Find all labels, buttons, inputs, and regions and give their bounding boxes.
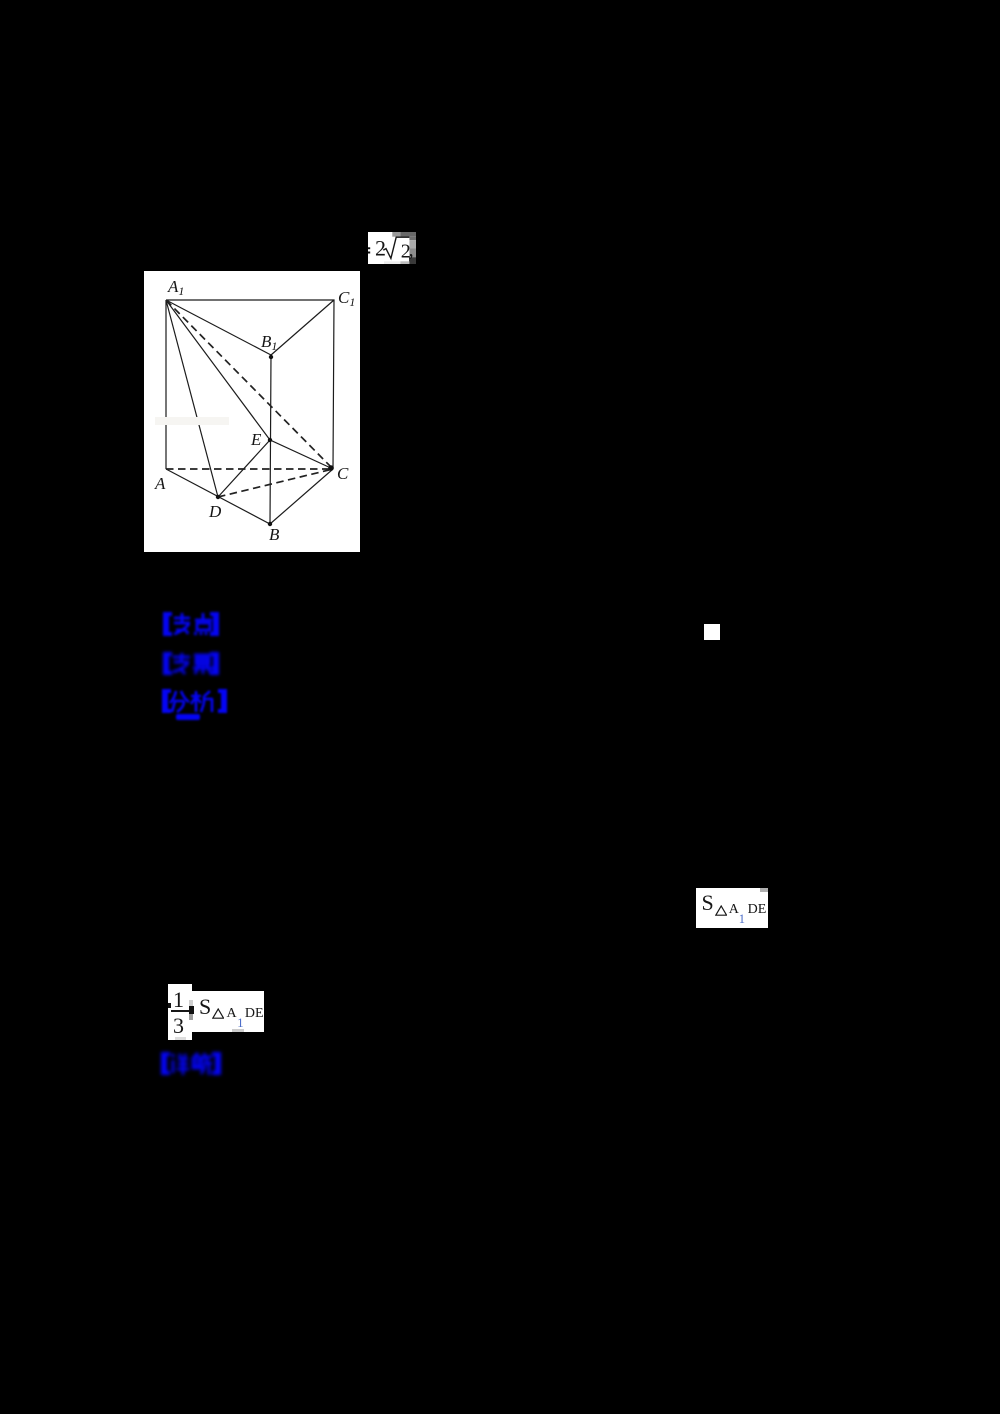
svg-text:A1: A1 <box>167 277 184 298</box>
svg-text:C: C <box>337 464 349 483</box>
svg-text:A: A <box>154 474 166 493</box>
svg-text:E: E <box>250 430 262 449</box>
svg-text:C1: C1 <box>338 288 355 309</box>
svg-text:D: D <box>208 502 222 521</box>
svg-text:2: 2 <box>375 235 386 260</box>
svg-text:B: B <box>269 525 280 544</box>
svg-text:,: , <box>409 239 414 261</box>
svg-text:B1: B1 <box>261 332 277 353</box>
